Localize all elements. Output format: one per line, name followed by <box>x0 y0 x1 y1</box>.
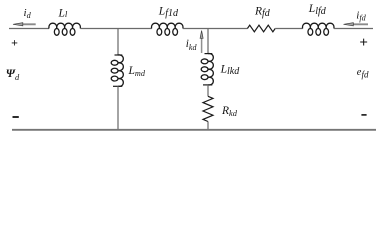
svg-text:+: + <box>359 35 368 51</box>
inductor L_lfd <box>302 23 334 35</box>
svg-text:efd: efd <box>357 67 369 79</box>
current arrow i_d <box>13 23 36 26</box>
svg-text:Ll: Ll <box>58 7 68 19</box>
inductor L_l <box>49 23 81 35</box>
wire magnetizing branch to bottom bus <box>117 86 119 129</box>
inductor L_f1d <box>151 23 183 35</box>
svg-text:+: + <box>11 36 18 50</box>
inductor L_md (vertical) <box>111 55 123 87</box>
wire top-right field lead <box>334 28 373 30</box>
wire top rail between R_fd and L_lfd <box>275 28 302 30</box>
bottom bus wire <box>12 129 376 131</box>
current arrow i_kd <box>200 31 203 53</box>
svg-text:Llkd: Llkd <box>220 63 241 77</box>
minus terminal right <box>361 114 366 116</box>
resistor R_fd <box>247 25 275 32</box>
inductor L_lkd (vertical) <box>201 53 213 85</box>
current arrow i_fd <box>344 23 369 26</box>
wire top-left stator lead <box>9 28 49 30</box>
resistor R_kd (vertical) <box>203 96 213 121</box>
wire top rail between L_f1d and R_fd <box>183 28 248 30</box>
minus terminal left <box>13 116 19 118</box>
svg-text:Lf1d: Lf1d <box>158 6 179 20</box>
wire damper branch to bottom bus <box>207 122 209 130</box>
svg-text:Rfd: Rfd <box>254 5 271 19</box>
node junction of magnetizing branch <box>117 29 119 56</box>
node junction of damper branch <box>207 29 209 54</box>
wire top rail between L_l and L_f1d <box>80 28 151 30</box>
wire damper branch between L_lkd and R_kd <box>207 85 209 96</box>
svg-text:Llfd: Llfd <box>308 3 327 17</box>
